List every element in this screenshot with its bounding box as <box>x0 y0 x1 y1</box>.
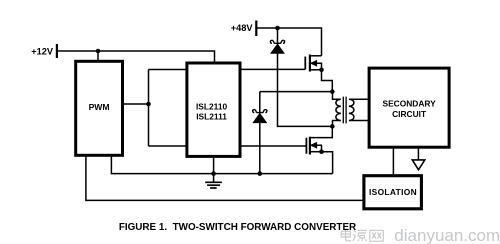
ground symbol <box>205 182 222 188</box>
node +12V/PWM junction dot <box>96 49 101 54</box>
svg-text:ISOLATION: ISOLATION <box>369 187 417 197</box>
wire Q1 source to primary top <box>322 70 333 92</box>
node primary top junction dot <box>330 89 335 94</box>
wire +12V rail to ISL2110 VDD <box>57 51 215 62</box>
wire to ISL INA <box>149 69 188 71</box>
wire PWM output <box>123 103 149 105</box>
wire junction to PWM top <box>97 51 99 60</box>
isolation box <box>364 176 422 209</box>
wire primary bottom to Q2 drain <box>310 126 332 137</box>
secondary circuit box <box>369 68 449 147</box>
node PWM output junction dot <box>146 102 151 107</box>
wire Q1 gate from ISL OUTA <box>240 68 305 70</box>
svg-text:CIRCUIT: CIRCUIT <box>392 109 427 119</box>
wire Q2 gate from ISL OUTB <box>240 145 306 147</box>
watermark chinese character wang <box>370 230 384 241</box>
wire Q2 source to ground rail <box>322 152 333 174</box>
svg-text:SECONDARY: SECONDARY <box>382 98 436 108</box>
svg-text:+12V: +12V <box>31 47 54 57</box>
secondary winding <box>349 99 370 120</box>
primary winding <box>333 92 341 127</box>
svg-text:ISL2110: ISL2110 <box>196 101 228 111</box>
watermark chinese character yuan <box>353 230 367 241</box>
wire PWM to ISOLATION (feedback return) <box>86 155 364 200</box>
transformer T1 <box>333 92 370 127</box>
+12V terminal bar <box>56 44 58 58</box>
svg-text:+48V: +48V <box>231 23 254 33</box>
wire D2 cathode to primary top <box>260 91 333 93</box>
watermark chinese character dian <box>341 229 383 241</box>
transistor Q2 (lower MOSFET) <box>306 137 321 155</box>
svg-text:ISL2111: ISL2111 <box>196 112 227 122</box>
core lines <box>343 97 346 124</box>
node Q2 source/body junction dot <box>319 149 324 154</box>
+48V terminal bar <box>255 21 257 37</box>
node D2 anode junction dot <box>258 171 263 176</box>
node +48V/D1 junction dot <box>275 26 280 31</box>
wire +48V rail to Q1 drain <box>256 28 321 56</box>
wire to ISL INB <box>149 145 188 147</box>
transistor Q1 (upper MOSFET) <box>305 55 321 72</box>
wire secondary to isolation <box>392 147 394 176</box>
node Q1 source/body junction dot <box>319 68 324 73</box>
svg-text:dianyuan.com: dianyuan.com <box>394 226 500 244</box>
PWM controller box <box>76 61 123 155</box>
svg-text:FIGURE 1. TWO-SWITCH FORWARD: FIGURE 1. TWO-SWITCH FORWARD CONVERTER <box>119 222 356 233</box>
wire ISL ground stem <box>213 156 215 182</box>
driver U1 ISL2110/ISL2111 box <box>187 63 240 156</box>
svg-text:PWM: PWM <box>89 102 110 112</box>
node primary bottom junction dot <box>330 124 335 129</box>
node ISL ground junction dot <box>211 171 216 176</box>
wire input loop vertical <box>148 70 150 147</box>
output open arrow <box>412 160 425 170</box>
diode D1 (schottky clamp to +48V) <box>270 28 332 126</box>
wire ground rail <box>111 155 332 173</box>
output arrow stem <box>417 147 419 160</box>
diode D2 (schottky clamp to ground) <box>253 92 267 174</box>
